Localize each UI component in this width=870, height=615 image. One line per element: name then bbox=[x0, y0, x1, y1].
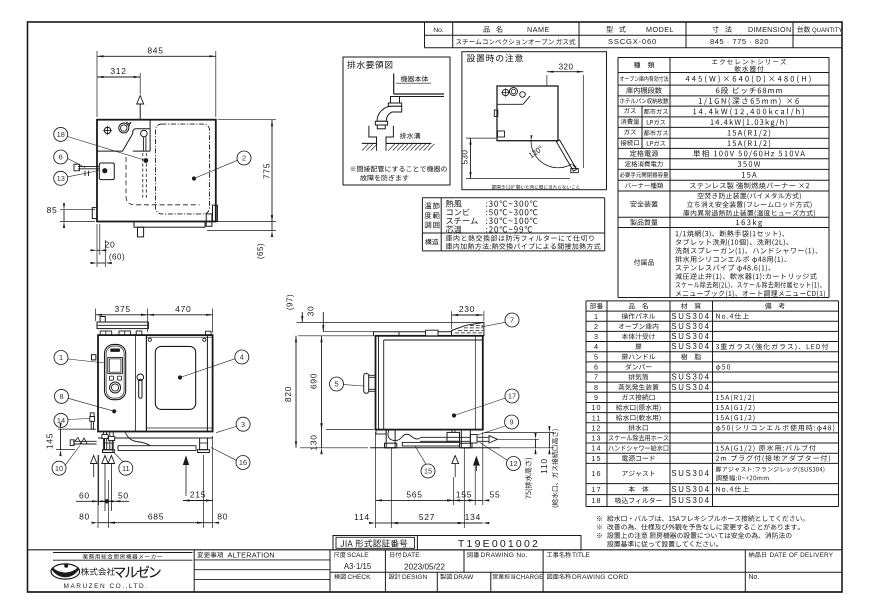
svg-text:2023/05/22: 2023/05/22 bbox=[404, 563, 445, 572]
front dim 215 bbox=[203, 455, 205, 528]
balloon 1 bbox=[54, 351, 68, 365]
plan view right hinge tab bbox=[213, 205, 218, 221]
dimension 775 bbox=[218, 119, 276, 121]
svg-text:17: 17 bbox=[592, 485, 602, 494]
balloon 8 bbox=[55, 389, 69, 403]
svg-text:3: 3 bbox=[241, 420, 245, 429]
balloon 11 bbox=[119, 461, 133, 475]
svg-text:60: 60 bbox=[79, 490, 90, 500]
svg-text:7: 7 bbox=[594, 373, 599, 382]
svg-text:14: 14 bbox=[57, 416, 65, 425]
svg-text:1: 1 bbox=[594, 312, 599, 321]
temperature range table bbox=[422, 197, 604, 199]
side view exhaust louvre bbox=[452, 322, 484, 335]
scale date cells bbox=[334, 552, 346, 558]
side dim 30 bbox=[323, 331, 374, 333]
svg-text:6: 6 bbox=[594, 363, 599, 372]
balloon 6 bbox=[54, 150, 68, 164]
drain note bbox=[350, 166, 446, 172]
balloon 4 bbox=[235, 350, 249, 364]
svg-text:6: 6 bbox=[59, 153, 63, 162]
svg-text:DRAWING No.: DRAWING No. bbox=[481, 552, 528, 559]
balloon 2 bbox=[237, 151, 251, 165]
svg-text:110: 110 bbox=[539, 458, 549, 474]
front view door handle bbox=[137, 374, 144, 381]
svg-text:55: 55 bbox=[490, 489, 501, 499]
svg-text:80: 80 bbox=[217, 512, 228, 522]
svg-text:4: 4 bbox=[240, 353, 244, 362]
svg-text:312: 312 bbox=[110, 66, 126, 76]
spec rows text bbox=[634, 62, 655, 68]
svg-text:685: 685 bbox=[148, 512, 164, 522]
notice open door bbox=[556, 140, 576, 171]
front view control panel bbox=[105, 344, 126, 399]
svg-text:5: 5 bbox=[334, 380, 338, 389]
svg-text:134: 134 bbox=[465, 512, 481, 522]
front view left clip bbox=[92, 355, 96, 360]
svg-text:230: 230 bbox=[459, 304, 475, 314]
installation notice box bbox=[462, 52, 607, 190]
notice caption bbox=[492, 185, 580, 189]
front view water inlet arrows bbox=[91, 456, 97, 464]
svg-text:SUS304: SUS304 bbox=[671, 469, 710, 478]
svg-text:85: 85 bbox=[47, 205, 58, 215]
svg-text:775: 775 bbox=[262, 163, 272, 179]
plan view crosshair fitting bbox=[104, 127, 110, 133]
side dim 114 527 134 bbox=[390, 448, 392, 528]
drain detail machine outline bbox=[393, 74, 395, 95]
svg-text:8: 8 bbox=[594, 383, 599, 392]
side view door handle bbox=[364, 373, 369, 393]
svg-text:T19E001002: T19E001002 bbox=[458, 538, 540, 550]
svg-text:SUS304: SUS304 bbox=[671, 342, 710, 351]
plan view bottom base bbox=[134, 222, 205, 228]
front view top clips bbox=[100, 331, 112, 335]
svg-text:MARUZEN CO.,LTD.: MARUZEN CO.,LTD. bbox=[64, 583, 149, 590]
svg-text:470: 470 bbox=[175, 304, 191, 314]
svg-text:16: 16 bbox=[239, 458, 247, 467]
plan exhaust arrow bbox=[139, 104, 141, 120]
side dim 820 bbox=[300, 447, 368, 449]
check design draw cells bbox=[334, 574, 346, 580]
svg-text:SUS304: SUS304 bbox=[671, 312, 710, 321]
front view balloon8 dot bbox=[112, 409, 116, 413]
side view drain pipe with arrow bbox=[420, 436, 489, 438]
plan view left hinge block bbox=[92, 208, 97, 219]
svg-text:16: 16 bbox=[592, 469, 602, 478]
svg-text:MODEL: MODEL bbox=[646, 25, 674, 34]
svg-text:SUS304: SUS304 bbox=[671, 485, 710, 494]
svg-text:1: 1 bbox=[59, 353, 63, 362]
svg-text:18: 18 bbox=[592, 496, 602, 505]
svg-text:820: 820 bbox=[283, 386, 293, 402]
side dim 565 155 55 bbox=[375, 432, 377, 528]
front view door window bbox=[155, 346, 195, 409]
balloon 17 bbox=[505, 389, 519, 403]
drain funnel bbox=[369, 126, 377, 144]
svg-text:3: 3 bbox=[594, 332, 599, 341]
parts header bbox=[590, 303, 603, 309]
svg-text:690: 690 bbox=[309, 373, 319, 389]
front view body outline bbox=[98, 335, 213, 431]
svg-text:145: 145 bbox=[45, 433, 55, 449]
balloon 10 bbox=[52, 461, 66, 475]
balloon 3 bbox=[236, 417, 250, 431]
svg-text:8: 8 bbox=[59, 392, 63, 401]
svg-text:50: 50 bbox=[118, 490, 129, 500]
plan view hinge side dashed outline bbox=[126, 157, 200, 205]
plan view left pipes bbox=[78, 166, 100, 168]
maruzen logo block bbox=[53, 552, 193, 554]
svg-text:7: 7 bbox=[510, 316, 514, 325]
front view top plate bbox=[97, 322, 148, 329]
svg-text:17: 17 bbox=[508, 392, 516, 401]
balloon 13 bbox=[54, 171, 68, 185]
svg-text:10: 10 bbox=[55, 464, 63, 473]
front view hand shower valve bbox=[90, 417, 95, 422]
svg-text:SUS304: SUS304 bbox=[671, 332, 710, 341]
drain detail box bbox=[343, 57, 450, 185]
svg-text:SSCGX-060: SSCGX-060 bbox=[608, 37, 657, 46]
svg-text:845 · 775 · 820: 845 · 775 · 820 bbox=[710, 37, 769, 46]
title block frame bbox=[28, 549, 843, 551]
svg-text:14: 14 bbox=[592, 444, 602, 453]
side dim (97) bbox=[297, 321, 484, 323]
header table frame bbox=[424, 22, 426, 48]
svg-text:NAME: NAME bbox=[527, 25, 550, 34]
svg-text:DRAW: DRAW bbox=[454, 574, 475, 581]
svg-text:SUS304: SUS304 bbox=[671, 496, 710, 505]
balloon 18 bbox=[54, 127, 68, 141]
svg-text:114: 114 bbox=[354, 512, 370, 522]
svg-text:530: 530 bbox=[461, 150, 470, 165]
plan view damper circle bbox=[119, 123, 129, 133]
dimension 85 bbox=[60, 209, 95, 211]
notice dim 320 bbox=[546, 75, 548, 86]
balloon 5 bbox=[330, 377, 344, 391]
balloon 16 bbox=[236, 456, 250, 470]
dimension 312 bbox=[139, 73, 141, 94]
front view inlet pipes bbox=[102, 432, 104, 451]
plan view water pipe bbox=[141, 130, 148, 137]
svg-text:11: 11 bbox=[592, 413, 601, 422]
plan view door swing dash-dot outline bbox=[156, 124, 210, 214]
front dim 375 470 bbox=[94, 309, 96, 322]
svg-text:DESIGN: DESIGN bbox=[402, 574, 428, 581]
balloon 15 bbox=[421, 464, 435, 478]
side dim 110 inlet height bbox=[484, 432, 554, 434]
svg-text:2: 2 bbox=[594, 322, 599, 331]
plan view body outline bbox=[97, 120, 216, 222]
svg-text:565: 565 bbox=[406, 489, 422, 499]
notice dim 530 bbox=[466, 137, 496, 139]
svg-text:30: 30 bbox=[306, 306, 316, 317]
notice door swing arc bbox=[531, 141, 572, 168]
side dim 75 drain height bbox=[498, 438, 540, 440]
plan view hand shower bracket bbox=[99, 163, 114, 180]
JIA certification box bbox=[333, 536, 581, 551]
front view base and legs bbox=[146, 427, 212, 429]
svg-text:2: 2 bbox=[242, 154, 246, 163]
svg-text:15: 15 bbox=[424, 467, 432, 476]
svg-text:QUANTITY: QUANTITY bbox=[812, 28, 842, 34]
parts list table bbox=[586, 300, 839, 302]
notice mini plan body bbox=[497, 86, 558, 141]
dimension 20 bbox=[99, 224, 101, 255]
svg-text:13: 13 bbox=[57, 174, 65, 183]
footnotes bbox=[597, 516, 602, 521]
svg-text:DATE OF DELIVERY: DATE OF DELIVERY bbox=[770, 552, 834, 559]
balloon 7 bbox=[505, 313, 519, 327]
svg-text:12: 12 bbox=[592, 423, 602, 432]
dimension (65) bbox=[207, 230, 276, 232]
svg-text:375: 375 bbox=[115, 304, 131, 314]
svg-text:ALTERATION: ALTERATION bbox=[228, 550, 275, 559]
svg-text:SUS304: SUS304 bbox=[671, 322, 710, 331]
svg-text:11: 11 bbox=[122, 464, 130, 473]
side view body outline bbox=[376, 336, 483, 430]
svg-text:845: 845 bbox=[147, 45, 163, 55]
svg-text:4: 4 bbox=[594, 342, 599, 351]
header row 2 text bbox=[456, 38, 575, 44]
svg-text:SUS304: SUS304 bbox=[671, 383, 710, 392]
svg-text:SCALE: SCALE bbox=[347, 552, 369, 559]
side dim 130 bbox=[321, 430, 323, 448]
svg-text:12: 12 bbox=[509, 459, 517, 468]
svg-text:5: 5 bbox=[594, 352, 599, 361]
drain ground line and hatching bbox=[362, 142, 377, 144]
svg-text:CHARGE: CHARGE bbox=[516, 574, 543, 581]
alteration cell bbox=[197, 552, 223, 558]
side dim 690 bbox=[298, 335, 374, 337]
svg-text:9: 9 bbox=[510, 418, 514, 427]
svg-text:527: 527 bbox=[419, 512, 435, 522]
svg-text:130: 130 bbox=[309, 434, 319, 450]
side view under-body gas hose bbox=[388, 430, 420, 441]
front dim 80 685 80 bbox=[97, 455, 99, 528]
svg-text:No.: No. bbox=[749, 574, 760, 581]
side view fittings bbox=[447, 432, 460, 441]
svg-text:(65): (65) bbox=[256, 243, 265, 259]
svg-text:No.: No. bbox=[433, 27, 444, 34]
svg-text:10: 10 bbox=[592, 403, 602, 412]
front view gas arrow filled bbox=[183, 455, 189, 465]
balloon 9 bbox=[505, 415, 519, 429]
side view top bump bbox=[426, 330, 438, 336]
side view connection arrows bbox=[452, 456, 459, 464]
dimension (60) bbox=[104, 240, 106, 267]
spec table frame bbox=[618, 57, 829, 59]
balloon 12 bbox=[507, 457, 521, 471]
side view legs bbox=[370, 447, 500, 449]
side dim 230 bbox=[451, 311, 453, 329]
dimension 845 bbox=[96, 51, 98, 117]
svg-text:215: 215 bbox=[190, 489, 206, 499]
front dim 60 50 bbox=[98, 455, 100, 505]
svg-text:CHECK: CHECK bbox=[348, 574, 372, 581]
svg-text:SUS304: SUS304 bbox=[671, 373, 710, 382]
front view water faucet with valve bbox=[73, 440, 97, 442]
svg-text:DIMENSION: DIMENSION bbox=[748, 25, 791, 34]
front dim 145 bbox=[58, 428, 96, 430]
svg-text:TITLE: TITLE bbox=[572, 552, 591, 559]
svg-text:9: 9 bbox=[594, 393, 599, 402]
svg-text:DATE: DATE bbox=[403, 552, 421, 559]
plan view steam compartment bbox=[97, 129, 150, 151]
svg-text:20: 20 bbox=[105, 240, 116, 250]
svg-text:80: 80 bbox=[79, 512, 90, 522]
svg-text:(97): (97) bbox=[286, 294, 295, 310]
svg-text:18: 18 bbox=[57, 130, 65, 139]
svg-text:(60): (60) bbox=[109, 253, 125, 262]
svg-text:13: 13 bbox=[592, 434, 602, 443]
drain elbow pipe bbox=[391, 97, 400, 104]
svg-text:15: 15 bbox=[592, 454, 602, 463]
svg-text:DRAWING CORD: DRAWING CORD bbox=[572, 574, 628, 581]
svg-text:320: 320 bbox=[559, 63, 574, 72]
svg-text:A3·1/15: A3·1/15 bbox=[344, 562, 372, 571]
balloon 14 bbox=[54, 413, 68, 427]
